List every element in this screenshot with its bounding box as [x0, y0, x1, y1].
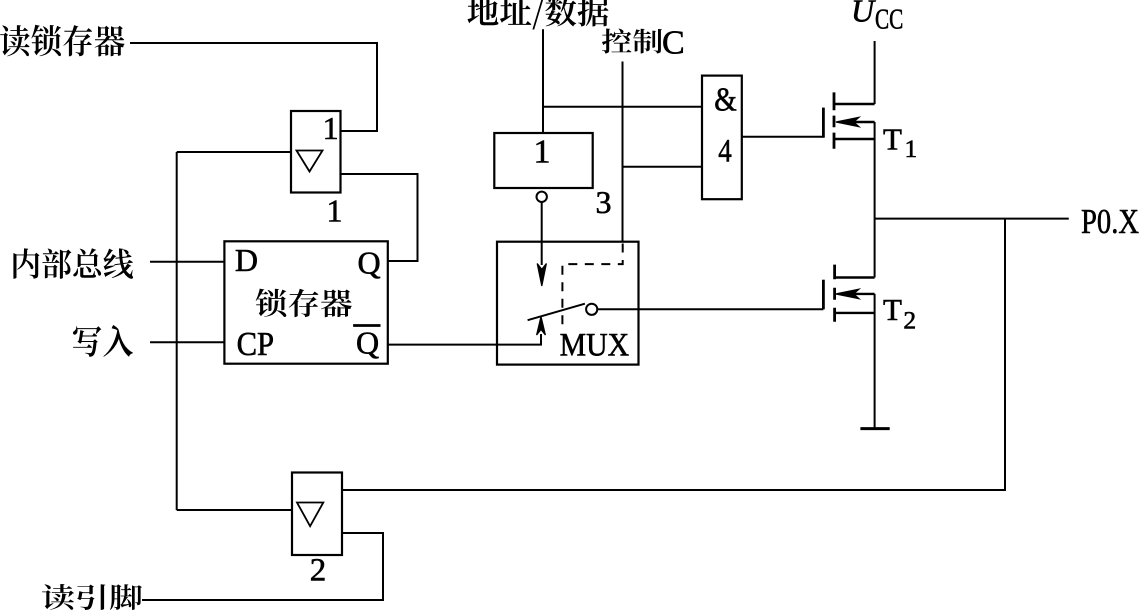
latch U2 (D latch 锁存器) [224, 241, 387, 363]
transistor T2 (MOSFET) [823, 265, 874, 322]
wire T1 source to P0.X node [874, 122, 876, 219]
svg-text:T: T [883, 292, 902, 327]
wire inverter to MUX (with arrow) [541, 202, 543, 265]
buffer U1 (tri-state read-latch buffer) [291, 111, 341, 193]
node 地址/数据 (address/data label) [468, 0, 609, 30]
wire P0.X pin line [875, 218, 1069, 220]
overbar of Q-bar [353, 324, 380, 327]
svg-text:CC: CC [875, 5, 903, 36]
wire read-latch to buffer1 enable [130, 43, 377, 131]
node 写入 (write label) [73, 325, 133, 357]
wire P0.X feedback down to buffer2 [342, 219, 1005, 490]
wire T2 source to ground [874, 294, 876, 428]
arrow from Q-bar up to switch [540, 334, 542, 345]
ground [860, 427, 889, 430]
wire Ucc to T1 drain [874, 41, 876, 104]
wire Q-bar output to MUX [388, 344, 542, 346]
arrowhead of T1 bulk [836, 117, 859, 126]
arrowhead down into MUX [537, 264, 546, 287]
value label 锁存器 [256, 289, 352, 318]
wire internal bus vertical [176, 152, 178, 510]
svg-text:1: 1 [323, 110, 339, 146]
svg-text:Q: Q [356, 325, 379, 361]
node 读引脚 (read pin label) [42, 584, 142, 610]
wire buffer1 output to internal bus [177, 151, 291, 153]
switch arm inside MUX [528, 304, 585, 321]
buffer U5 triangle symbol [297, 503, 323, 527]
wire address/data vertical [542, 29, 544, 133]
wire AND output to T1 gate [742, 136, 824, 138]
svg-text:CP: CP [237, 326, 275, 363]
wire P0.X node to T2 drain [874, 219, 876, 278]
svg-text:3: 3 [596, 184, 612, 220]
svg-text:Q: Q [358, 245, 381, 281]
node 控制C (control C label) [602, 29, 662, 54]
svg-text:T: T [883, 122, 902, 157]
wire address/data branch to AND gate input [543, 106, 702, 108]
node 读锁存器 (read-latch label) [0, 25, 125, 57]
svg-text:2: 2 [310, 553, 327, 589]
transistor T1 (MOSFET) [823, 92, 874, 148]
svg-text:1: 1 [905, 134, 918, 163]
wire read-pin to buffer2 enable [142, 533, 383, 600]
svg-text:D: D [235, 242, 258, 278]
wire internal bus to D input [150, 261, 224, 263]
multiplexer MUX box [497, 242, 639, 365]
svg-text:U: U [851, 0, 876, 29]
inverter bubble [537, 192, 547, 202]
svg-text:2: 2 [903, 305, 916, 334]
wire MUX output to T2 gate [597, 308, 823, 310]
AND gate U4 (&amp; 4) [702, 76, 742, 200]
svg-text:C: C [662, 25, 685, 62]
buffer U1 triangle symbol [297, 151, 323, 172]
svg-text:1: 1 [327, 193, 343, 229]
wire write to CP input [150, 341, 224, 343]
wire bus to buffer2 output [177, 509, 292, 511]
arrowhead of T2 bulk [836, 289, 859, 298]
svg-text:MUX: MUX [560, 327, 630, 363]
svg-text:&: & [714, 82, 737, 119]
inverter U3 (box 1) [494, 133, 592, 188]
svg-text:4: 4 [718, 133, 732, 169]
switch contact circle [586, 304, 597, 315]
node 内部总线 (internal bus label) [13, 248, 133, 279]
svg-text:P0.X: P0.X [1081, 202, 1139, 241]
dashed control path inside MUX [562, 244, 622, 327]
buffer U5 (tri-state read-pin buffer) [292, 473, 342, 556]
svg-text:1: 1 [534, 133, 551, 170]
wire control C branch to AND gate input [623, 166, 703, 168]
wire control C vertical [622, 62, 624, 242]
wire Q output to buffer1 input [341, 174, 418, 261]
